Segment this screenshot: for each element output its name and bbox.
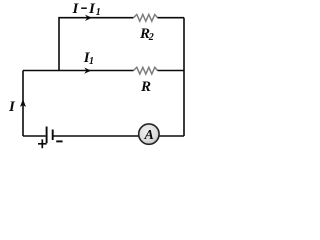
svg-text:2: 2 bbox=[148, 32, 154, 43]
battery long plate (+) bbox=[46, 127, 48, 144]
wire: right vertical bbox=[183, 18, 185, 136]
arrow: I1 current arrow on middle wire bbox=[85, 68, 90, 73]
arrow: I current arrow on left wire (up) bbox=[21, 100, 26, 107]
svg-text:R: R bbox=[140, 79, 151, 95]
svg-text:1: 1 bbox=[96, 7, 101, 18]
wire: top branch left segment bbox=[59, 18, 134, 71]
svg-text:A: A bbox=[144, 128, 154, 143]
svg-text:1: 1 bbox=[89, 56, 94, 67]
svg-text:I: I bbox=[8, 99, 16, 115]
svg-text:I: I bbox=[72, 1, 80, 17]
resistor R zigzag bbox=[134, 67, 158, 74]
wire: bottom left segment (to battery) bbox=[23, 135, 46, 137]
arrow: I - I1 current arrow on top wire bbox=[86, 15, 91, 20]
label + bbox=[38, 139, 47, 148]
wire: top branch right segment bbox=[158, 17, 185, 19]
wire: bottom right segment (ammeter to corner) bbox=[158, 135, 184, 137]
battery short plate (-) bbox=[52, 130, 54, 141]
label - bbox=[56, 140, 62, 142]
wire: bottom middle segment (battery to ammeter) bbox=[53, 135, 140, 137]
wire: middle branch right segment bbox=[158, 70, 185, 72]
ammeter A bbox=[139, 124, 159, 144]
svg-text:I: I bbox=[88, 1, 96, 17]
wire: middle branch left segment bbox=[23, 70, 134, 72]
resistor R2 zigzag bbox=[134, 15, 158, 22]
wire: left vertical bbox=[22, 71, 24, 137]
